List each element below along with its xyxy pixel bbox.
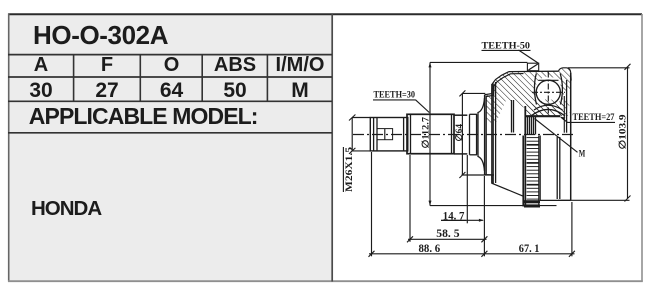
leader TEETH=27 [561, 117, 615, 122]
svg-text:∅112.7: ∅112.7 [421, 117, 432, 149]
dim: M26 vertical line [351, 118, 353, 151]
hatched inner race right wedge [556, 99, 570, 116]
ball [536, 80, 560, 104]
neck top [454, 114, 467, 116]
stub chamfer lines [373, 118, 375, 151]
leader TEETH=30 [416, 100, 430, 113]
header I/M/O [268, 54, 332, 77]
table panel background [8, 14, 332, 281]
frame top [8, 13, 642, 15]
dim 64 vertical [461, 93, 463, 175]
bell face verticals [484, 95, 486, 175]
header F [74, 54, 140, 77]
frame bottom [8, 280, 643, 282]
svg-text:TEETH=27: TEETH=27 [573, 112, 615, 123]
ext line left 88.6 [371, 152, 373, 256]
svg-text:TEETH=30: TEETH=30 [374, 90, 416, 101]
ext 14.7 left [466, 155, 468, 223]
bell top-left outline [485, 72, 509, 95]
brand HONDA [31, 197, 101, 221]
dim 103.9 vertical [627, 67, 629, 199]
103.9 ext bottom [558, 199, 630, 201]
hatched inner race left wedge [527, 99, 542, 116]
value 64 [141, 79, 202, 103]
leader TEETH-50 [519, 50, 539, 63]
shaft end verticals [511, 100, 513, 133]
table column line 3 [201, 55, 203, 102]
bell bottom-left outline [485, 175, 524, 197]
drawing labels [343, 41, 628, 256]
dim 112.7 vertical [429, 62, 431, 205]
ball vertical centerline [547, 72, 549, 115]
svg-text:∅103.9: ∅103.9 [618, 114, 629, 149]
M26 extension bottom [352, 150, 370, 152]
dim line 88.6 / 67.1 [369, 253, 575, 255]
fillet to bell bottom [478, 157, 485, 172]
frame right [641, 14, 643, 282]
applicable model label [29, 103, 258, 130]
bell top-right hump [559, 68, 572, 81]
band dark bottom [524, 200, 540, 203]
neck bottom [454, 153, 467, 155]
main centerline [353, 134, 575, 136]
band teeth stripes [527, 138, 539, 200]
table column line 1 [73, 55, 75, 102]
white notch right wall [563, 88, 571, 112]
svg-text:67. 1: 67. 1 [519, 241, 540, 255]
fillet to bell top [478, 98, 485, 113]
value 50 [203, 79, 267, 103]
bell foot bottom [540, 199, 571, 201]
title HO-O-302A [33, 20, 168, 51]
ball horizontal centerline [532, 91, 565, 93]
frame left [8, 14, 10, 282]
bell right face [570, 73, 572, 200]
svg-text:58. 5: 58. 5 [436, 226, 459, 240]
panel divider [331, 14, 333, 282]
M26 extension top [352, 117, 370, 119]
cage arcs [534, 74, 536, 105]
table row line 4 [8, 132, 332, 134]
value M [268, 79, 332, 103]
svg-text:M26X1.5: M26X1.5 [345, 147, 355, 192]
value 30 [9, 79, 73, 103]
ABS band side view edges [522, 136, 524, 207]
boot groove walls [469, 114, 471, 155]
leader M [535, 119, 578, 153]
header ABS [203, 54, 267, 77]
64 ext bottom [462, 174, 495, 176]
112.7 ext top [430, 61, 527, 63]
white ball pocket cutout [535, 77, 563, 108]
table column line 4 [266, 55, 268, 102]
64 ext top [462, 92, 485, 94]
header O [141, 54, 202, 77]
spline bore teeth verticals [527, 116, 529, 134]
table column line 2 [139, 55, 141, 102]
svg-text:∅64: ∅64 [454, 124, 465, 142]
103.9 ext top [568, 67, 630, 69]
table row line 3 [8, 100, 332, 102]
spline section TEETH=30 [407, 114, 454, 153]
bore line bold [525, 115, 561, 117]
header A [9, 54, 73, 77]
hatched inner race band under ball [532, 99, 565, 116]
ABS tooth box [527, 63, 538, 70]
hatched bell section upper half [485, 68, 571, 123]
ext line 58.5 left [409, 155, 411, 242]
dim line 14.7 [441, 219, 483, 221]
bell top edge [509, 70, 559, 72]
ext 67.1 right [571, 202, 573, 256]
svg-text:88. 6: 88. 6 [419, 241, 441, 255]
ring bore edge above ball [539, 79, 559, 81]
ext bell face [483, 176, 485, 256]
dim line 58.5 [408, 238, 487, 240]
bell top-left inner offset line [486, 74, 523, 97]
stub slot [377, 129, 393, 140]
svg-text:M: M [579, 148, 586, 158]
table row line 1 [8, 54, 332, 56]
stub M26 outline [370, 118, 408, 151]
table row line 2 [8, 76, 332, 78]
inner race sphere arc [534, 105, 563, 110]
value 27 [74, 79, 140, 103]
112.7 ext bottom [430, 205, 557, 207]
